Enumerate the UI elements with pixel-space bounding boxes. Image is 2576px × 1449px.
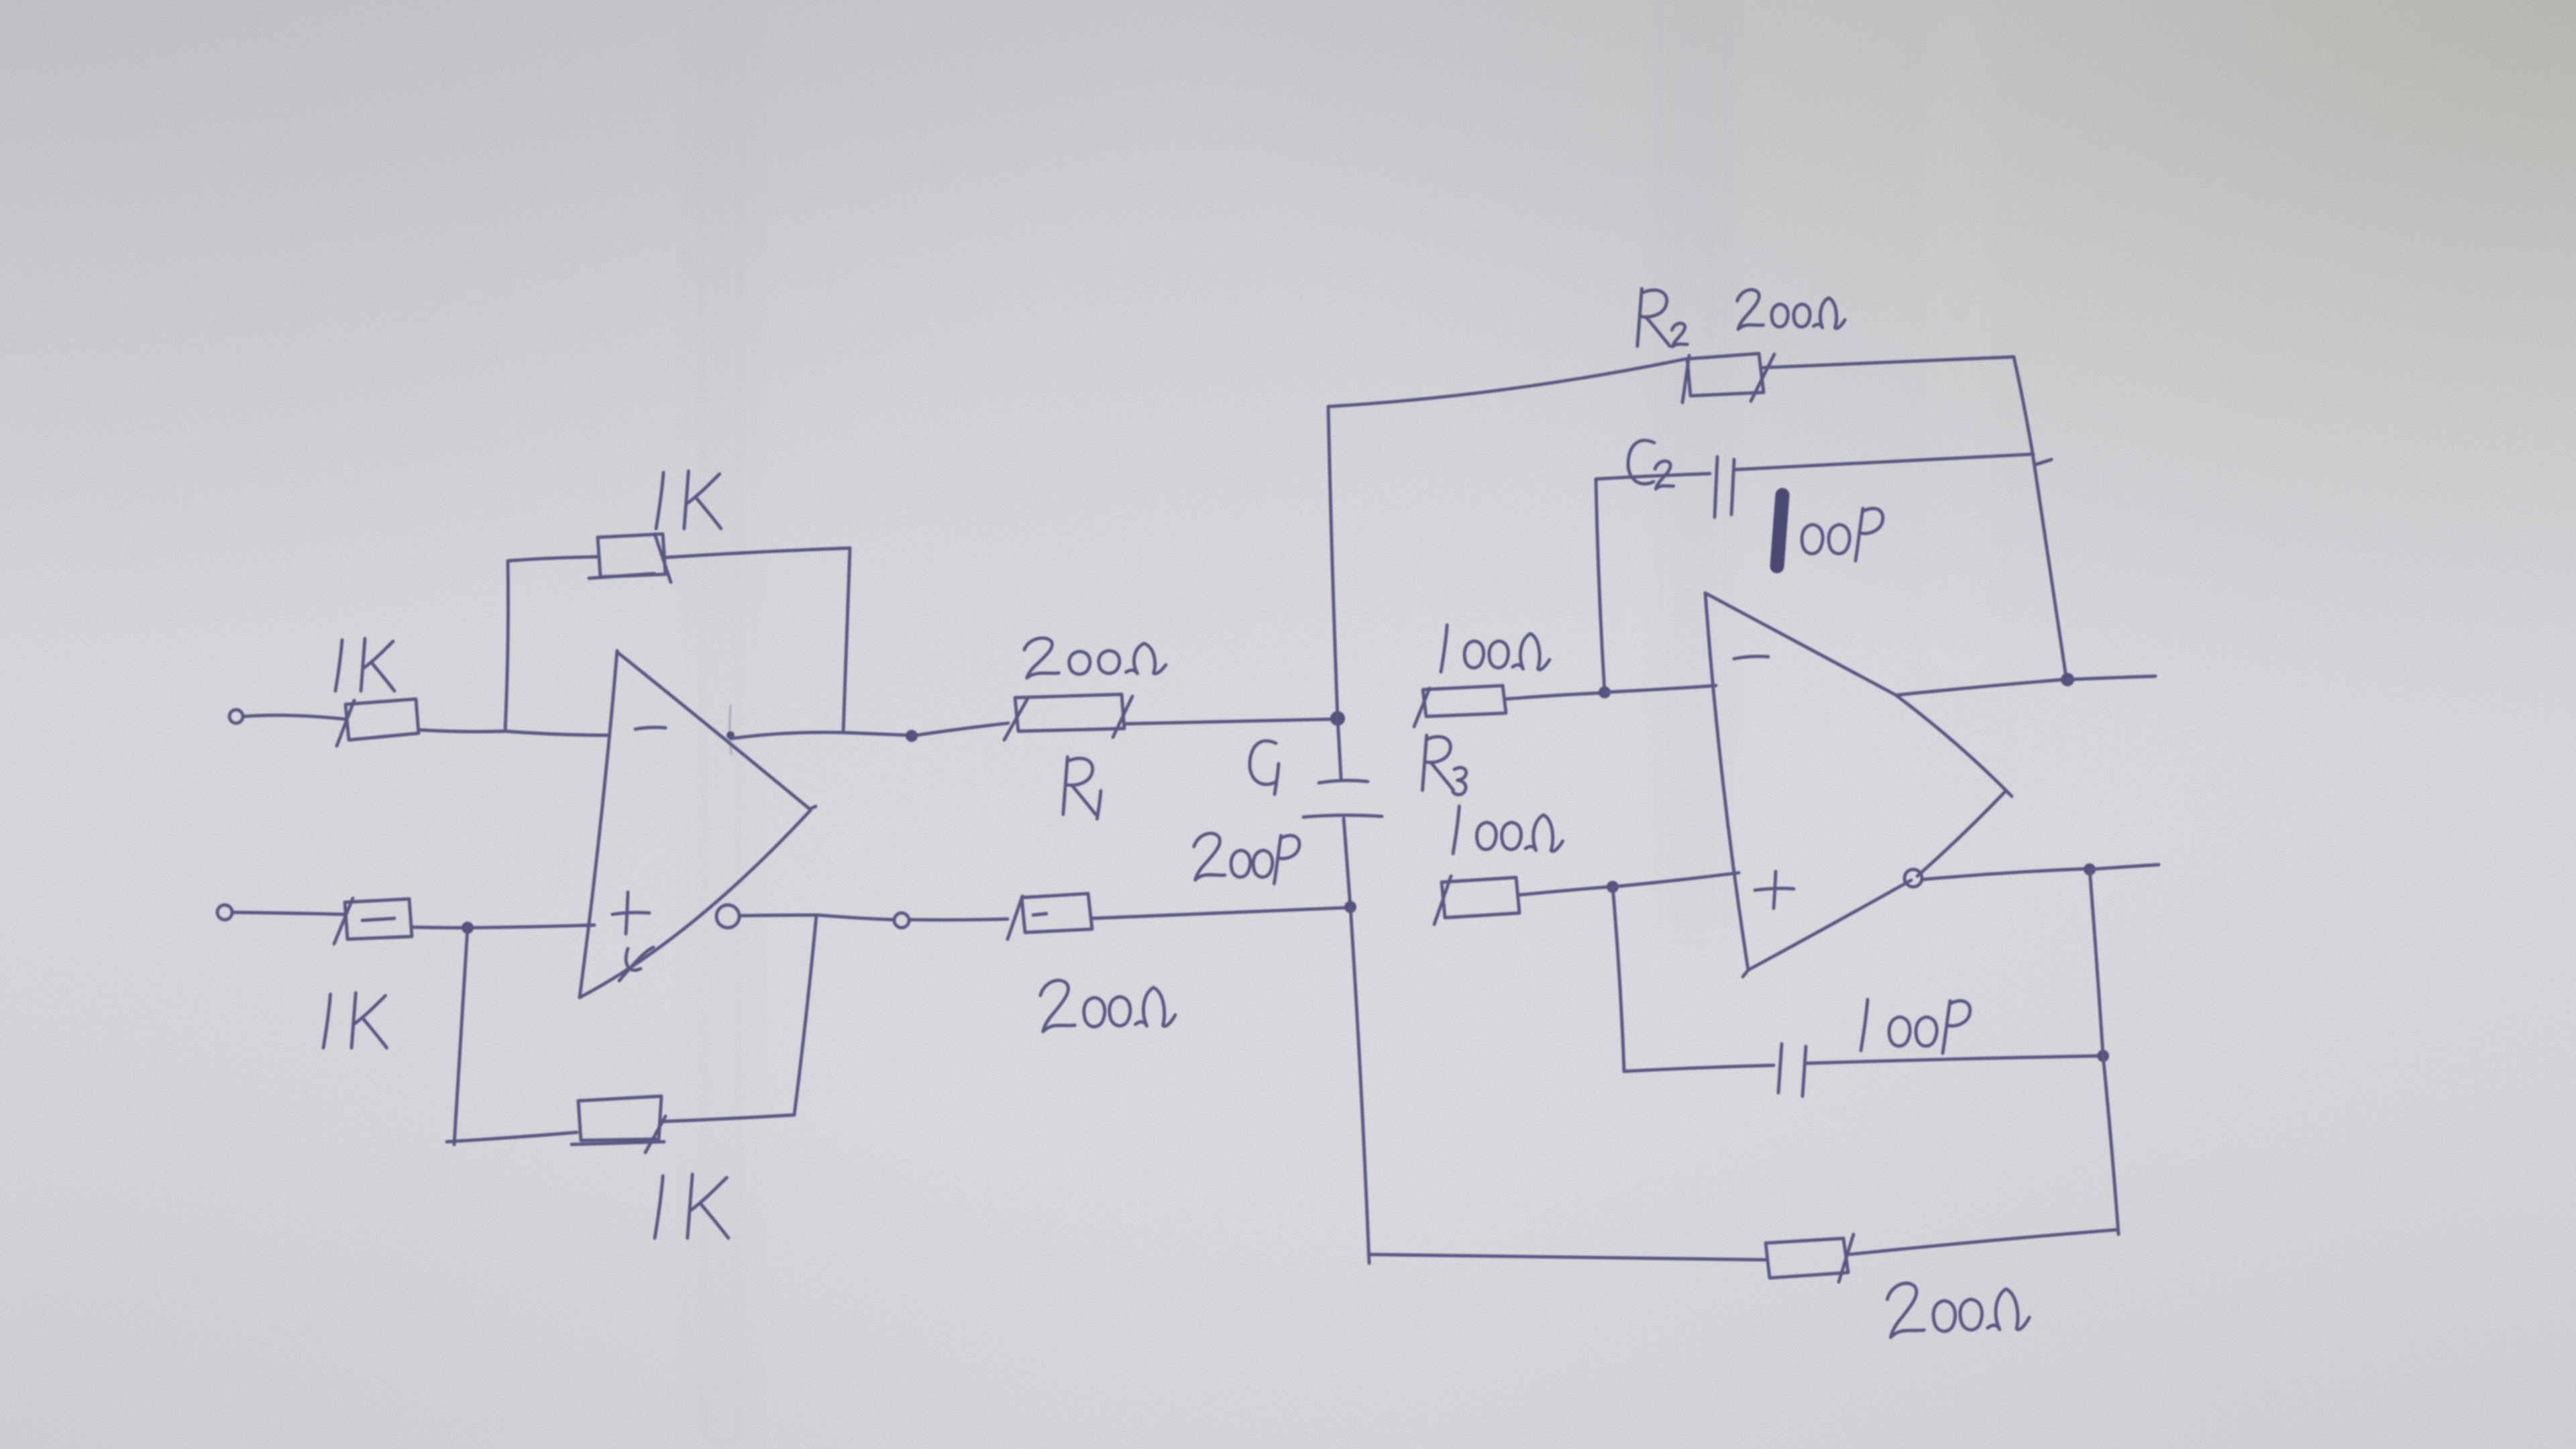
value label 200ohm (R2) [1737, 290, 1845, 329]
100ohm resistor (lower input of U2) [1434, 876, 1519, 924]
capacitor C2 plates [1715, 457, 1734, 517]
ref label R3 [1422, 735, 1466, 794]
resistor 1K (bottom feedback) [572, 1096, 665, 1152]
wire node B to R1 [912, 723, 1008, 736]
wire node D to U2 inverting input [1605, 686, 1716, 692]
ref label R1 [1063, 757, 1101, 818]
wire 200ohm to C1 bottom rail [1369, 1254, 1766, 1260]
wire U1 output (from top edge) [731, 733, 909, 739]
value label 100P (lower) [1861, 1000, 1970, 1053]
wire resistor to node A [419, 730, 505, 732]
value label 100ohm (R3) [1441, 625, 1550, 672]
wire 100p to node G [1807, 1056, 2100, 1063]
INK [217, 288, 2159, 1337]
node H junction (C1 / lower line) [1344, 901, 1356, 913]
wire node F down to node G [2090, 869, 2103, 1056]
resistor 1K (input 1) [337, 699, 419, 746]
wire to feedback resistor 1K [508, 557, 598, 561]
value label 200ohm (bottom right) [1886, 1277, 2030, 1337]
wire node G down to bottom corner [2103, 1056, 2118, 1234]
resistor 1K (input 2) [334, 898, 412, 944]
wire U2 output (upper, from top edge) [1897, 680, 2063, 695]
wire to 200ohm resistor [909, 919, 1008, 920]
value label 200ohm (lower) [1040, 976, 1176, 1032]
op-amp U2 [1705, 593, 2012, 977]
wire up to U1 output line [794, 915, 816, 1115]
node F junction [2084, 863, 2096, 875]
wire IN2 to input resistor [232, 912, 343, 914]
wire C2 right [1735, 454, 2033, 470]
capacitor 100p (lower) plates [1778, 1044, 1806, 1096]
value label 100P (C2) with heavy 1 [1777, 495, 1883, 566]
wire C1 leg down to bottom rail [1350, 907, 1369, 1263]
wire 200ohm to node H [1092, 908, 1347, 918]
tick at C2 junction [2037, 460, 2051, 464]
wire R2 row left [1328, 359, 1686, 407]
wire to bottom 1K resistor [447, 1132, 577, 1142]
wire node L to U2 non-inverting input [1613, 873, 1739, 887]
value label 1K (input 1) [335, 639, 394, 691]
wire node F to right end [2090, 865, 2159, 869]
resistor 200ohm (bottom right) [1766, 1234, 1854, 1282]
open node circle on output line [894, 913, 909, 928]
ref label C1 [1250, 741, 1279, 794]
wire resistor to node I [412, 927, 464, 928]
value label 200P (C1) [1194, 833, 1299, 883]
wire down from R2 corner to C2 wire [2014, 357, 2033, 453]
wire 100ohm to node L [1519, 887, 1609, 895]
wire R2 to right corner [1764, 357, 2014, 368]
U1 minus sign [635, 727, 665, 729]
wire node D up to C2 [1596, 479, 1605, 692]
node L junction [1607, 881, 1619, 893]
wire node C up to R2 row [1328, 407, 1338, 718]
value label 1K (U1 feedback) [656, 471, 721, 529]
wire feedback down to U1 output [843, 548, 850, 733]
junction blob at U1 output [727, 731, 735, 739]
op-amp U1 [580, 651, 816, 998]
wire node I to U1 non-inverting input [468, 925, 594, 928]
input terminal IN1 [229, 710, 243, 723]
node E junction [2061, 673, 2074, 686]
wire node I down to ground-leg resistor [454, 928, 468, 1144]
wire C2 left [1596, 474, 1710, 479]
wire IN1 to R input resistor [243, 715, 345, 719]
wire bottom right corner to 200ohm [1849, 1230, 2118, 1254]
resistor R3 100ohm (upper) [1414, 686, 1506, 727]
resistor 200ohm (lower path) [1008, 894, 1092, 939]
resistor 1K (U1 feedback) [589, 534, 671, 582]
wire to lower 100p plates [1624, 1065, 1774, 1071]
value label 1K (bottom) [655, 1174, 729, 1238]
resistor R1 200ohm [1004, 694, 1132, 740]
ref label R2 [1638, 288, 1688, 347]
wire node A up to feedback resistor [505, 561, 508, 731]
value label 1K (input 2) [323, 993, 387, 1048]
stray faint mark [730, 706, 731, 754]
ref label C2 [1628, 440, 1674, 488]
U1 output terminal circle [716, 905, 739, 928]
U2 plus sign [1755, 871, 1794, 908]
wire bottom 1K to right corner [660, 1115, 794, 1122]
wire down to node E on U2 output [2033, 453, 2066, 678]
U2 minus sign [1734, 656, 1768, 659]
wire R3 to node D [1506, 693, 1601, 699]
value label 100ohm (lower) [1453, 806, 1563, 854]
wire node E to right end [2068, 676, 2155, 680]
node D junction [1599, 686, 1611, 698]
value label 200ohm (R1) [1024, 635, 1167, 678]
wire U2 output lower [1923, 869, 2086, 879]
wire R1 to node C [1124, 719, 1332, 724]
wire feedback resistor to right corner [665, 548, 850, 557]
input terminal IN2 [217, 905, 232, 920]
capacitor C1 [1303, 718, 1382, 907]
node G junction [2097, 1050, 2109, 1062]
U1 plus sign [612, 892, 649, 934]
wire U1 output to circle K [739, 915, 894, 920]
junction node B [906, 730, 918, 742]
node I junction [462, 922, 474, 934]
wire node L down to 100p cap [1613, 887, 1624, 1071]
resistor R2 200ohm [1682, 354, 1774, 402]
wire node A to op-amp U1 inverting input [505, 731, 608, 735]
node C junction [1330, 711, 1345, 726]
U2 output terminal circle [1904, 869, 1922, 887]
